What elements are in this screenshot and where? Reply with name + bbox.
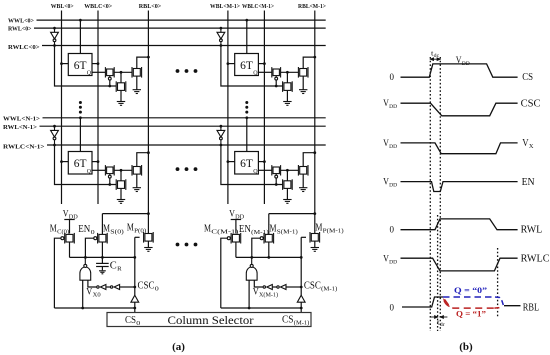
svg-text:0: 0 <box>390 72 395 82</box>
power VDD group (M-1) <box>231 220 241 234</box>
wire 6T to WBLC row0 col1 <box>258 63 264 65</box>
waveform CS <box>401 64 518 77</box>
node CSC rail group 0 <box>133 307 136 310</box>
label CSC level VDD <box>383 98 397 110</box>
wire WBL to 6T row1 col0 <box>62 161 69 163</box>
svg-text:WBLC<0>: WBLC<0> <box>84 3 112 10</box>
foot transistor row1 col1 <box>283 179 293 190</box>
node WBL-6T row0 col0 <box>60 62 63 65</box>
waveform VX <box>401 143 518 154</box>
transistor MC(0) <box>61 233 74 244</box>
waveform EN <box>401 182 518 192</box>
label EN level VDD <box>383 177 397 189</box>
wire WWL<0> rail <box>37 19 326 21</box>
label RWLC level VDD <box>383 254 397 266</box>
ground read transistor row0 col0 <box>133 90 141 94</box>
guide line tdc end <box>439 57 441 331</box>
ground CR <box>99 271 106 274</box>
node RWLC junction row0 col1 <box>220 44 223 47</box>
svg-text:V: V <box>63 210 69 220</box>
svg-text:X: X <box>529 143 534 150</box>
svg-text:0: 0 <box>136 320 140 327</box>
svg-text:Q: Q <box>87 70 92 76</box>
svg-text:DD: DD <box>389 144 397 150</box>
svg-text:CS: CS <box>125 315 136 326</box>
wire Q to pass gate row0 col0 <box>92 71 105 73</box>
svg-text:WWL<0>: WWL<0> <box>8 18 34 25</box>
label EN(M-1) <box>239 224 269 236</box>
guide line sense end <box>497 248 499 318</box>
wire MC(M-1) gate to rail <box>221 238 227 308</box>
label EN0 <box>78 224 94 236</box>
wire EN net group (M-1) <box>236 256 301 258</box>
wire MP(M-1) source to ground <box>314 241 316 247</box>
read transistor row1 col0 <box>132 165 142 176</box>
label MP(0) <box>127 223 146 235</box>
node storage readout row0 col0 <box>120 71 123 74</box>
guide line tdr start <box>437 215 439 331</box>
label CS0 <box>125 315 140 327</box>
wire read drain to RBL row0 col1 <box>303 57 315 68</box>
svg-text:CS: CS <box>282 315 294 326</box>
wire MC(M-1) drain down <box>235 242 237 257</box>
label MS(M-1) <box>270 224 298 236</box>
label MC(M-1) <box>204 224 238 236</box>
arrow tdc <box>431 58 441 61</box>
inverter RWL-to-RWLC row1 col0 <box>51 126 59 145</box>
label CS(M-1) <box>282 315 309 327</box>
ground read transistor row1 col0 <box>133 188 141 192</box>
node WWL tap row1 col0 <box>79 116 82 119</box>
node WBLC-6T row0 col0 <box>97 62 100 65</box>
wire CSC to delay chain group (M-1) <box>286 286 301 288</box>
node EN-NAND group (M-1) <box>250 256 253 259</box>
transistor MC(M-1) <box>227 233 240 244</box>
svg-text:S(0): S(0) <box>110 229 124 236</box>
wire pass gate to RWLC line row1 col0 <box>109 178 111 184</box>
svg-text:R: R <box>117 266 122 273</box>
wire WWL tap to 6T row1 col0 <box>79 118 81 152</box>
label MS(0) <box>103 224 124 236</box>
wire RWLC gate line row0 col0 <box>55 46 117 87</box>
svg-text:RWLC<N-1>: RWLC<N-1> <box>3 143 45 150</box>
svg-text:dr: dr <box>440 322 445 328</box>
wire foot source to ground row1 col1 <box>286 189 288 200</box>
wire feedback rail group (M-1) <box>221 307 301 309</box>
wire MS(M-1) source down <box>268 242 270 257</box>
read transistor row0 col0 <box>132 67 142 78</box>
node WBLC-6T row1 col1 <box>263 160 266 163</box>
wire 6T to WBLC row0 col0 <box>92 63 98 65</box>
svg-text:RBL<0>: RBL<0> <box>139 3 162 10</box>
svg-text:CSC: CSC <box>304 281 321 292</box>
wire buffer to rail group (M-1) <box>300 302 302 312</box>
waveform RBL idle tail <box>504 305 521 307</box>
ellipsis more rows col0 <box>79 101 82 104</box>
wire foot source to ground row1 col0 <box>120 189 122 200</box>
svg-text:WBL<0>: WBL<0> <box>51 3 74 10</box>
wire WBL&lt;0&gt; vertical <box>61 11 63 205</box>
label VX level VDD <box>383 138 397 150</box>
ellipsis more columns row0 <box>176 69 180 73</box>
wire WBL to 6T row0 col1 <box>228 63 235 65</box>
svg-text:M: M <box>270 224 277 235</box>
wire Q to pass gate row1 col0 <box>92 169 105 171</box>
svg-text:M: M <box>204 224 211 235</box>
node WBL-6T row1 col0 <box>60 160 63 163</box>
transistor MP(M-1) <box>310 232 320 243</box>
svg-text:Q = “0”: Q = “0” <box>454 286 487 295</box>
wire 6T to WBLC row1 col1 <box>258 161 264 163</box>
wire MC(0) drain down <box>69 242 71 257</box>
arrow Q1 transition <box>443 298 449 306</box>
node RWL tap row0 col0 <box>53 27 56 30</box>
svg-text:DD: DD <box>462 61 470 67</box>
buffer CS to CSC group 0 <box>131 295 139 302</box>
ground foot transistor row0 col0 <box>117 102 125 106</box>
6T cell row0 col1 <box>235 54 259 77</box>
label tdr <box>437 318 445 328</box>
wire pass to read gate row1 col0 <box>114 169 131 171</box>
svg-text:RWLC: RWLC <box>521 254 550 265</box>
wire inverter link group 0 <box>106 286 110 288</box>
svg-text:M: M <box>103 224 110 235</box>
node RBL readout join group (M-1) <box>313 212 316 215</box>
label tdc <box>431 50 440 60</box>
label MP(M-1) <box>315 223 343 235</box>
wire 6T to WBLC row1 col0 <box>92 161 98 163</box>
svg-text:(M-1): (M-1) <box>321 286 337 293</box>
nand gate group (M-1) <box>246 257 257 280</box>
svg-text:EN: EN <box>239 224 251 235</box>
wire RWLC<0> rail <box>42 45 326 47</box>
node nand input A rail group 0 <box>81 307 84 310</box>
wire pass to read gate row1 col1 <box>281 169 298 171</box>
ground foot transistor row1 col0 <box>117 200 125 204</box>
wire node to foot transistor row0 col0 <box>120 72 122 82</box>
svg-text:C: C <box>110 260 117 272</box>
svg-text:WBL<M-1>: WBL<M-1> <box>210 3 240 10</box>
wire Q to pass gate row0 col1 <box>258 71 271 73</box>
node EN-MS source group 0 <box>101 256 104 259</box>
waveform RWL <box>401 219 518 230</box>
inverter RWL-to-RWLC row0 col0 <box>51 28 59 45</box>
inverter RWL-to-RWLC row1 col1 <box>217 126 225 145</box>
svg-text:6T: 6T <box>74 60 87 72</box>
waveform RBL solid <box>402 297 443 307</box>
column selector box <box>107 313 311 327</box>
foot transistor row0 col1 <box>283 81 293 92</box>
ground foot transistor row0 col1 <box>283 102 291 106</box>
wire RWLC<N-1> rail <box>47 144 326 146</box>
svg-text:Q: Q <box>253 70 258 76</box>
waveform RWLC <box>401 258 518 271</box>
wire pass gate to RWLC line row0 col0 <box>109 80 111 86</box>
wire read drain to RBL row1 col1 <box>303 153 315 167</box>
node pass-gate junction row1 col0 <box>108 183 111 186</box>
label CSC(M-1) <box>304 281 337 293</box>
transistor MS(M-1) <box>260 233 273 244</box>
svg-text:WBLC<M-1>: WBLC<M-1> <box>242 3 274 10</box>
svg-text:0: 0 <box>155 286 159 293</box>
wire read source to ground row1 col1 <box>302 174 304 188</box>
wire node to foot transistor row0 col1 <box>286 72 288 82</box>
svg-text:DD: DD <box>235 215 244 221</box>
wire foot source to ground row0 col1 <box>286 91 288 102</box>
wire WWL tap to 6T row1 col1 <box>246 118 248 152</box>
wire MP(M-1) gate to CSC <box>301 236 306 238</box>
ellipsis more columns readout <box>176 243 180 247</box>
delay inverter 2 group (M-1) <box>277 285 286 290</box>
wire pass to read gate row0 col0 <box>114 71 131 73</box>
wire MP(0) source to ground <box>147 241 149 247</box>
wire MS(0) source down <box>101 242 103 257</box>
svg-text:V: V <box>86 288 92 298</box>
svg-text:0: 0 <box>390 303 395 313</box>
label MC(0) <box>50 224 69 236</box>
ground read transistor row1 col1 <box>299 188 307 192</box>
wire WWL<N-1> rail <box>43 117 326 119</box>
power VDD group 0 <box>64 220 74 234</box>
node RBL join row0 col0 <box>147 56 150 59</box>
wire nand input A group (M-1) <box>248 280 250 308</box>
ground read transistor row0 col1 <box>299 90 307 94</box>
buffer CS to CSC group (M-1) <box>297 295 305 302</box>
svg-text:CSC: CSC <box>521 99 541 110</box>
wire WWL tap to 6T row0 col0 <box>79 20 81 53</box>
node WBL-6T row0 col1 <box>227 62 230 65</box>
wire read source to ground row0 col0 <box>136 76 138 90</box>
wire MS(M-1) drain up <box>268 214 270 235</box>
svg-text:X0: X0 <box>93 293 101 299</box>
read transistor row1 col1 <box>298 165 308 176</box>
svg-text:M: M <box>50 224 57 235</box>
svg-text:P(M-1): P(M-1) <box>323 228 344 235</box>
ellipsis more columns rowN-1 <box>176 167 180 171</box>
svg-text:CS: CS <box>522 72 533 83</box>
capacitor CR <box>96 263 109 270</box>
wire buffer to rail group 0 <box>134 302 136 312</box>
wire RBL&lt;0&gt; vertical <box>147 11 149 234</box>
node RBL join row0 col1 <box>313 56 316 59</box>
guide line tdc start <box>429 57 431 331</box>
wire node to foot transistor row1 col1 <box>286 170 288 180</box>
svg-text:RBL: RBL <box>523 303 539 314</box>
wire feedback rail group 0 <box>54 307 134 309</box>
node RWLC junction row0 col0 <box>53 44 56 47</box>
node CSC-Vx group 0 <box>133 286 136 289</box>
node storage readout row0 col1 <box>286 71 289 74</box>
svg-text:RWL<N-1>: RWL<N-1> <box>3 124 37 131</box>
node RBL join row1 col1 <box>313 151 316 154</box>
pass transistor row1 col1 <box>272 165 281 178</box>
foot transistor row0 col0 <box>116 81 126 92</box>
label CR <box>110 260 122 273</box>
node RWLC junction row1 col0 <box>53 144 56 147</box>
wire RWL<N-1> rail <box>40 125 326 127</box>
wire RWL<0> rail <box>34 27 326 29</box>
label VDD above CS <box>456 55 470 67</box>
svg-text:(b): (b) <box>459 341 473 353</box>
waveform RBL Q1 red <box>445 300 495 309</box>
node pass-gate junction row0 col1 <box>275 85 278 88</box>
wire WBL to 6T row1 col1 <box>228 161 235 163</box>
pass transistor row0 col0 <box>105 67 114 80</box>
svg-text:(a): (a) <box>172 341 185 353</box>
wire pass gate to RWLC line row1 col1 <box>275 178 277 184</box>
svg-text:WWL<N-1>: WWL<N-1> <box>3 115 40 122</box>
read transistor row0 col1 <box>298 67 308 78</box>
node EN-CSC cross group (M-1) <box>300 256 303 259</box>
ellipsis more rows col1 <box>245 101 248 104</box>
svg-text:EN: EN <box>522 177 535 188</box>
pass transistor row1 col0 <box>105 165 114 178</box>
wire MP(0) gate to CSC <box>135 236 140 238</box>
node nand input A rail group (M-1) <box>248 307 251 310</box>
wire RWLC gate line row0 col1 <box>221 46 283 87</box>
foot transistor row1 col0 <box>116 179 126 190</box>
wire WWL tap to 6T row0 col1 <box>246 20 248 53</box>
node WWL tap row0 col0 <box>79 19 82 22</box>
wire WBL to 6T row0 col0 <box>62 63 69 65</box>
node RWL tap row1 col1 <box>220 125 223 128</box>
node RWL tap row1 col0 <box>53 125 56 128</box>
node RWLC junction row1 col1 <box>220 144 223 147</box>
node WWL tap row0 col1 <box>245 19 248 22</box>
wire nand input A group 0 <box>82 280 84 308</box>
wire inverter link group (M-1) <box>273 286 277 288</box>
wire foot source to ground row0 col0 <box>120 91 122 102</box>
waveform CSC <box>401 103 518 116</box>
svg-text:0: 0 <box>91 230 95 236</box>
svg-text:S(M-1): S(M-1) <box>277 229 298 236</box>
node EN-MS source group (M-1) <box>267 256 270 259</box>
wire RWLC gate line row1 col1 <box>221 145 283 185</box>
wire CSC to delay chain group 0 <box>120 286 135 288</box>
node storage readout row1 col0 <box>120 169 123 172</box>
wire CSC vertical group (M-1) <box>300 237 302 295</box>
svg-text:X(M-1): X(M-1) <box>259 292 278 299</box>
svg-text:V: V <box>229 210 235 220</box>
wire Q to pass gate row1 col1 <box>258 169 271 171</box>
wire nand input B group 0 <box>88 280 97 287</box>
wire pass to read gate row0 col1 <box>281 71 298 73</box>
ground foot transistor row1 col1 <box>283 200 291 204</box>
node RBL join row1 col0 <box>147 151 150 154</box>
svg-text:DD: DD <box>389 183 397 189</box>
delay inverter 1 group (M-1) <box>263 285 272 290</box>
ground MP(M-1) <box>311 248 319 252</box>
svg-text:DD: DD <box>389 260 397 266</box>
svg-text:6T: 6T <box>74 158 87 170</box>
svg-text:DD: DD <box>69 215 78 221</box>
node WBL-6T row1 col1 <box>227 160 230 163</box>
arrow tdr <box>431 316 448 319</box>
wire read drain to RBL row0 col0 <box>137 57 149 68</box>
wire WBL&lt;M-1&gt; vertical <box>227 11 229 205</box>
label VX wave <box>522 138 534 150</box>
svg-text:CSC: CSC <box>138 281 155 292</box>
wire nand input B group (M-1) <box>254 280 262 287</box>
node EN-NAND group 0 <box>84 256 87 259</box>
svg-text:(M-1): (M-1) <box>294 320 310 327</box>
wire pass gate to RWLC line row0 col1 <box>275 80 277 86</box>
wire read drain to RBL row1 col0 <box>137 153 149 167</box>
svg-text:RWL: RWL <box>521 225 543 236</box>
wire MS(M-1) to RBL <box>269 213 315 215</box>
svg-text:0: 0 <box>390 225 395 235</box>
wire MS(M-1) gate to EN wire <box>252 238 260 257</box>
wire MS(0) to RBL <box>102 213 148 215</box>
6T cell row1 col1 <box>235 152 259 175</box>
wire CR lead <box>101 257 103 263</box>
node WBLC-6T row1 col0 <box>97 160 100 163</box>
svg-text:RBL<M-1>: RBL<M-1> <box>298 3 326 10</box>
label VDD group 0 <box>63 210 78 221</box>
wire MS(0) drain up <box>101 214 103 235</box>
wire node to foot transistor row1 col0 <box>120 170 122 180</box>
node WWL tap row1 col1 <box>245 116 248 119</box>
svg-text:Q: Q <box>87 169 92 175</box>
node CSC rail group (M-1) <box>300 307 303 310</box>
delay inverter 1 group 0 <box>97 285 106 290</box>
ground MP(0) <box>144 248 152 252</box>
svg-text:RWLC<0>: RWLC<0> <box>8 44 40 51</box>
label VX(M-1) <box>253 288 278 299</box>
wire MS(0) gate to EN wire <box>85 238 93 257</box>
node EN-CSC cross group 0 <box>133 256 136 259</box>
6T cell row1 col0 <box>68 152 92 175</box>
wire EN net group 0 <box>70 256 135 258</box>
svg-text:6T: 6T <box>240 60 253 72</box>
node CSC-Vx group (M-1) <box>300 286 303 289</box>
wire MC(0) gate to rail <box>54 238 60 308</box>
delay inverter 2 group 0 <box>110 285 119 290</box>
node pass-gate junction row1 col1 <box>275 183 278 186</box>
wire WBLC&lt;0&gt; vertical <box>97 11 99 205</box>
waveform RBL Q0 blue <box>443 296 495 298</box>
svg-text:Q = “1”: Q = “1” <box>456 310 486 319</box>
node RWL tap row0 col1 <box>220 27 223 30</box>
svg-text:DD: DD <box>389 104 397 110</box>
transistor MP(0) <box>144 232 154 243</box>
svg-text:Column Selector: Column Selector <box>168 315 254 327</box>
wire RBL&lt;M-1&gt; vertical <box>314 11 316 234</box>
wire read source to ground row1 col0 <box>136 174 138 188</box>
svg-text:Q: Q <box>253 169 258 175</box>
svg-text:M: M <box>127 223 134 234</box>
wire RWLC gate line row1 col0 <box>55 145 117 185</box>
wire WBLC&lt;M-1&gt; vertical <box>263 11 265 205</box>
svg-text:6T: 6T <box>240 158 253 170</box>
node WBLC-6T row0 col1 <box>263 62 266 65</box>
label VX0 <box>86 288 100 299</box>
wire read source to ground row0 col1 <box>302 76 304 90</box>
svg-text:EN: EN <box>78 224 90 235</box>
6T cell row0 col0 <box>68 54 92 77</box>
svg-text:M: M <box>315 223 322 234</box>
pass transistor row0 col1 <box>272 67 281 80</box>
node storage readout row1 col1 <box>286 169 289 172</box>
wire CSC vertical group 0 <box>134 237 136 295</box>
transistor MS(0) <box>94 233 107 244</box>
nand gate group 0 <box>80 257 91 280</box>
label VDD group (M-1) <box>229 210 244 221</box>
label CSC0 <box>138 281 159 293</box>
svg-text:RWL<0>: RWL<0> <box>8 26 32 33</box>
svg-text:V: V <box>253 288 259 298</box>
node pass-gate junction row0 col0 <box>108 85 111 88</box>
